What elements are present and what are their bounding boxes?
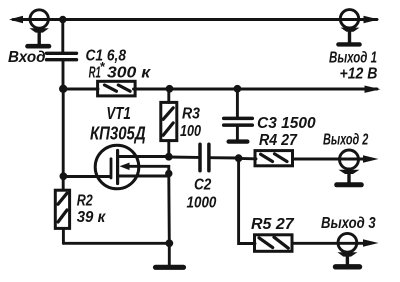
svg-text:КП305Д: КП305Д (90, 123, 146, 144)
svg-text:R3: R3 (182, 105, 201, 123)
junction top rail / C1 (59, 16, 66, 23)
svg-text:Вход: Вход (8, 49, 46, 66)
wire ground rail (63, 242, 169, 245)
capacitor C3 1500 (224, 89, 316, 140)
junction gate wire (60, 172, 68, 180)
junction gate node: C1 / R1 / gate line (59, 85, 67, 93)
wire C1 top stem (61, 20, 64, 52)
transistor VT1 КП305Д (90, 104, 146, 189)
output connector Выход 2 (323, 130, 379, 184)
wire source down to ground rail (167, 176, 170, 243)
wire R5 to output 3 (292, 242, 363, 245)
wire gate node vertical down to R2 (62, 89, 65, 190)
svg-text:R5 27: R5 27 (251, 216, 295, 233)
svg-text:Выход 1: Выход 1 (329, 48, 377, 66)
wire drain node to C2 (169, 156, 199, 159)
svg-text:100: 100 (180, 123, 201, 141)
wire R4 to output 2 (293, 158, 364, 161)
wire gate node to R1 (63, 88, 98, 91)
wire gate lead to VT1 (63, 175, 110, 178)
junction ground rail / ground stem (165, 239, 173, 247)
svg-text:+12 В: +12 В (340, 64, 378, 82)
wire VT1 drain lead to node (138, 155, 169, 158)
svg-text:1000: 1000 (187, 195, 218, 212)
input connector Вход (8, 10, 49, 66)
ground for C3 (229, 139, 248, 143)
output connector Выход 1 (329, 10, 379, 66)
svg-text:R2: R2 (77, 192, 93, 210)
svg-text:С2: С2 (194, 177, 212, 194)
svg-text:R4 27: R4 27 (259, 131, 298, 149)
svg-text:VT1: VT1 (106, 104, 130, 123)
ground symbol (156, 243, 184, 267)
capacitor C1 6,8 (47, 47, 127, 89)
wire top rail from input to output 1 (13, 18, 377, 21)
wire VT1 source lead (138, 175, 169, 178)
wire output node to R4 (239, 157, 256, 160)
junction +12V rail / C3 (234, 85, 242, 93)
capacitor C2 1000 (187, 144, 218, 212)
junction +12V rail / R3 (166, 85, 174, 93)
resistor R2 39 к (55, 190, 106, 243)
resistor R3 100 (161, 89, 201, 157)
svg-text:39 к: 39 к (77, 209, 107, 227)
resistor R4 27 (255, 131, 298, 166)
net label +12 В (340, 64, 378, 82)
wire C2 to output node (211, 156, 239, 159)
svg-text:Выход 3: Выход 3 (321, 215, 376, 232)
resistor R1* 300 к (89, 59, 152, 96)
resistor R5 27 (251, 216, 295, 251)
svg-text:300 к: 300 к (107, 63, 152, 81)
junction drain node: R3 / drain / C2 (165, 153, 173, 161)
wire output node down to R5 (239, 158, 255, 243)
junction source/substrate (165, 170, 172, 177)
wire +12V rail (134, 86, 381, 93)
wire VT1 substrate lead, corner down (138, 166, 169, 176)
junction output node: C2 / R4 / R5 branch (235, 154, 243, 162)
svg-text:С3 1500: С3 1500 (257, 115, 316, 132)
svg-text:Выход 2: Выход 2 (323, 130, 369, 148)
output connector Выход 3 (321, 215, 379, 267)
